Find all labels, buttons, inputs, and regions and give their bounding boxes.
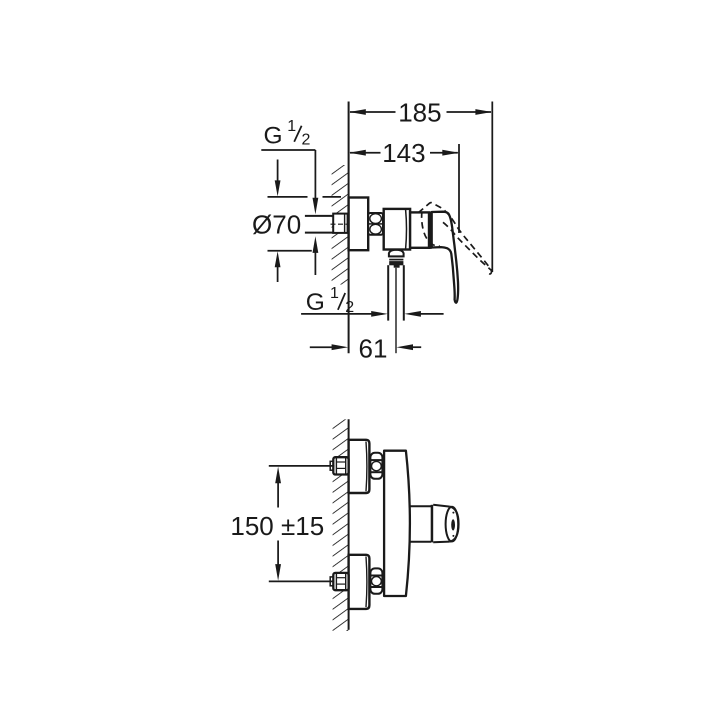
label G 1/2 (lower) opposite left arrow	[420, 313, 444, 315]
cartridge housing section (side view)	[410, 212, 429, 247]
outlet dome collar under block	[389, 250, 404, 257]
lower escutcheon (plan view)	[349, 555, 370, 609]
svg-text:1: 1	[330, 285, 339, 302]
label G 1/2 (lower) leader underline with right arrow	[301, 313, 372, 315]
dimension O70 lower outside arrow	[277, 266, 279, 283]
lever handle raised position (dashed outer curve)	[418, 203, 491, 274]
outlet small nub	[394, 265, 400, 268]
outlet dark nut band	[389, 261, 403, 265]
lower supply stub behind nut	[330, 577, 333, 586]
dark joint ring	[429, 212, 432, 249]
knob dots	[452, 512, 454, 514]
dark joint ring (plan view)	[431, 505, 434, 543]
dimension 143 right arrowhead	[442, 150, 459, 156]
label G 1/2 (upper) leader vertical + down arrow at pipe	[314, 150, 316, 200]
svg-text:2: 2	[302, 132, 311, 149]
upper supply stub behind nut	[330, 461, 333, 470]
outlet centerline / extension for 61	[395, 268, 397, 353]
dimension 61 left outside arrow	[310, 346, 334, 348]
label G 1/2 (upper) opposite up arrow below pipe	[314, 252, 316, 275]
inner contour of block	[405, 210, 408, 249]
extension line right of 143	[458, 144, 460, 233]
check valve block (side view)	[384, 209, 410, 250]
handle knob (plan view)	[433, 505, 458, 542]
svg-text:61: 61	[359, 334, 388, 364]
label G 1/2 (upper) text	[264, 118, 311, 150]
label G 1/2 (lower) text	[306, 285, 355, 316]
dimension O70 lower extension line	[268, 250, 312, 252]
wall surface line (side view)	[348, 102, 350, 354]
faucet body (plan view)	[384, 451, 410, 596]
dimension 61 right outside arrow	[412, 346, 422, 348]
svg-text:Ø70: Ø70	[252, 210, 301, 240]
extension line right of 185	[491, 102, 493, 273]
wall hatch (side view)	[332, 165, 349, 285]
outlet pipe (down pipe)	[387, 265, 389, 320]
dimension 185 left arrowhead	[349, 109, 366, 115]
svg-text:185: 185	[398, 98, 441, 128]
dimension O70 upper extension line	[268, 196, 308, 198]
lower mounting hex nut	[333, 573, 348, 590]
dimension 150+-15 lower extension line	[269, 580, 335, 582]
svg-text:1: 1	[287, 118, 296, 135]
S-union hex nut (side view)	[368, 213, 383, 235]
lever handle raised position (dashed inner curve)	[443, 222, 491, 270]
wall hatch (plan view)	[333, 419, 349, 631]
dimension 185 right arrowhead	[475, 109, 492, 115]
raised handle hub arc (dashed)	[422, 212, 440, 247]
inlet nut dashed centerline	[331, 223, 350, 225]
dimension 150+-15 upper extension line	[269, 465, 335, 467]
knob slot	[451, 519, 455, 530]
label G 1/2 (upper) leader underline	[261, 149, 315, 151]
dimension 150+-15 upper arrow	[277, 482, 279, 508]
cap and lever handle (solid position)	[432, 212, 458, 303]
svg-text:G: G	[306, 289, 325, 316]
wall surface line (plan view)	[348, 419, 350, 630]
handle hub (plan view)	[409, 505, 431, 507]
upper escutcheon (plan view)	[349, 440, 370, 493]
dimension 143 line	[350, 152, 458, 154]
lower S-union hex (plan view)	[370, 568, 382, 593]
dimension 143 left arrowhead	[349, 150, 366, 156]
svg-text:143: 143	[382, 138, 425, 168]
svg-text:150 ±15: 150 ±15	[230, 511, 324, 541]
dimension O70 upper outside arrow	[277, 160, 279, 183]
dimension 150+-15 lower arrow	[277, 541, 279, 566]
svg-text:G: G	[264, 122, 283, 149]
escutcheon (side view)	[349, 198, 369, 251]
dimension 185 line	[350, 111, 491, 113]
inlet square union nut at wall	[333, 214, 347, 233]
outlet band lines	[389, 255, 403, 257]
upper S-union hex (plan view)	[370, 453, 382, 479]
inlet pipe stub (side view)	[305, 215, 334, 217]
upper mounting hex nut	[333, 457, 348, 474]
